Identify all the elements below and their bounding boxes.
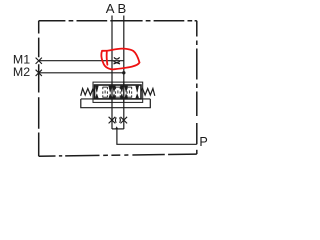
spring left [81,89,95,96]
valve V1 section2 dashed orifice box [116,87,121,98]
valve V1 section1 dashed orifice box [103,87,108,98]
svg-text:B: B [118,1,127,16]
port M2 plug cross [36,70,42,76]
port plug cross on A drop [109,117,117,124]
wire drain tray [81,99,151,108]
port M1 plug cross [36,58,42,64]
spring right [141,89,155,96]
valve V1 body box [95,85,142,99]
node junction P drop [115,126,118,129]
svg-text:P: P [199,135,207,149]
border top [39,20,197,22]
wire drop to P run [117,129,197,144]
border right lower stub [196,150,198,154]
border left [38,21,40,156]
port plug cross on B drop [120,117,128,124]
border bottom [39,154,197,156]
valve V1 metering poppet marks [95,86,138,98]
wire box-bottom extensions [81,98,151,100]
svg-text:M2: M2 [13,65,30,79]
wire B vertical [123,16,125,130]
valve V1 divider right (B) [123,82,125,102]
valve V1 section3 dashed orifice box [127,87,132,98]
wire M2 horizontal [39,72,124,74]
wire A vertical [111,16,113,130]
border right upper [196,21,198,145]
svg-text:A: A [106,1,115,16]
wire M1 horizontal [39,60,124,62]
enclosure dash-dot border [39,21,197,156]
node junction M2-B [122,71,125,74]
annotation red highlight blob [101,49,139,70]
valve V1 outer envelope [93,82,143,102]
wire tie below valve [112,128,124,130]
test point T1 arc and cross on M1 line [114,57,121,64]
valve V1 divider left (A) [111,82,113,102]
